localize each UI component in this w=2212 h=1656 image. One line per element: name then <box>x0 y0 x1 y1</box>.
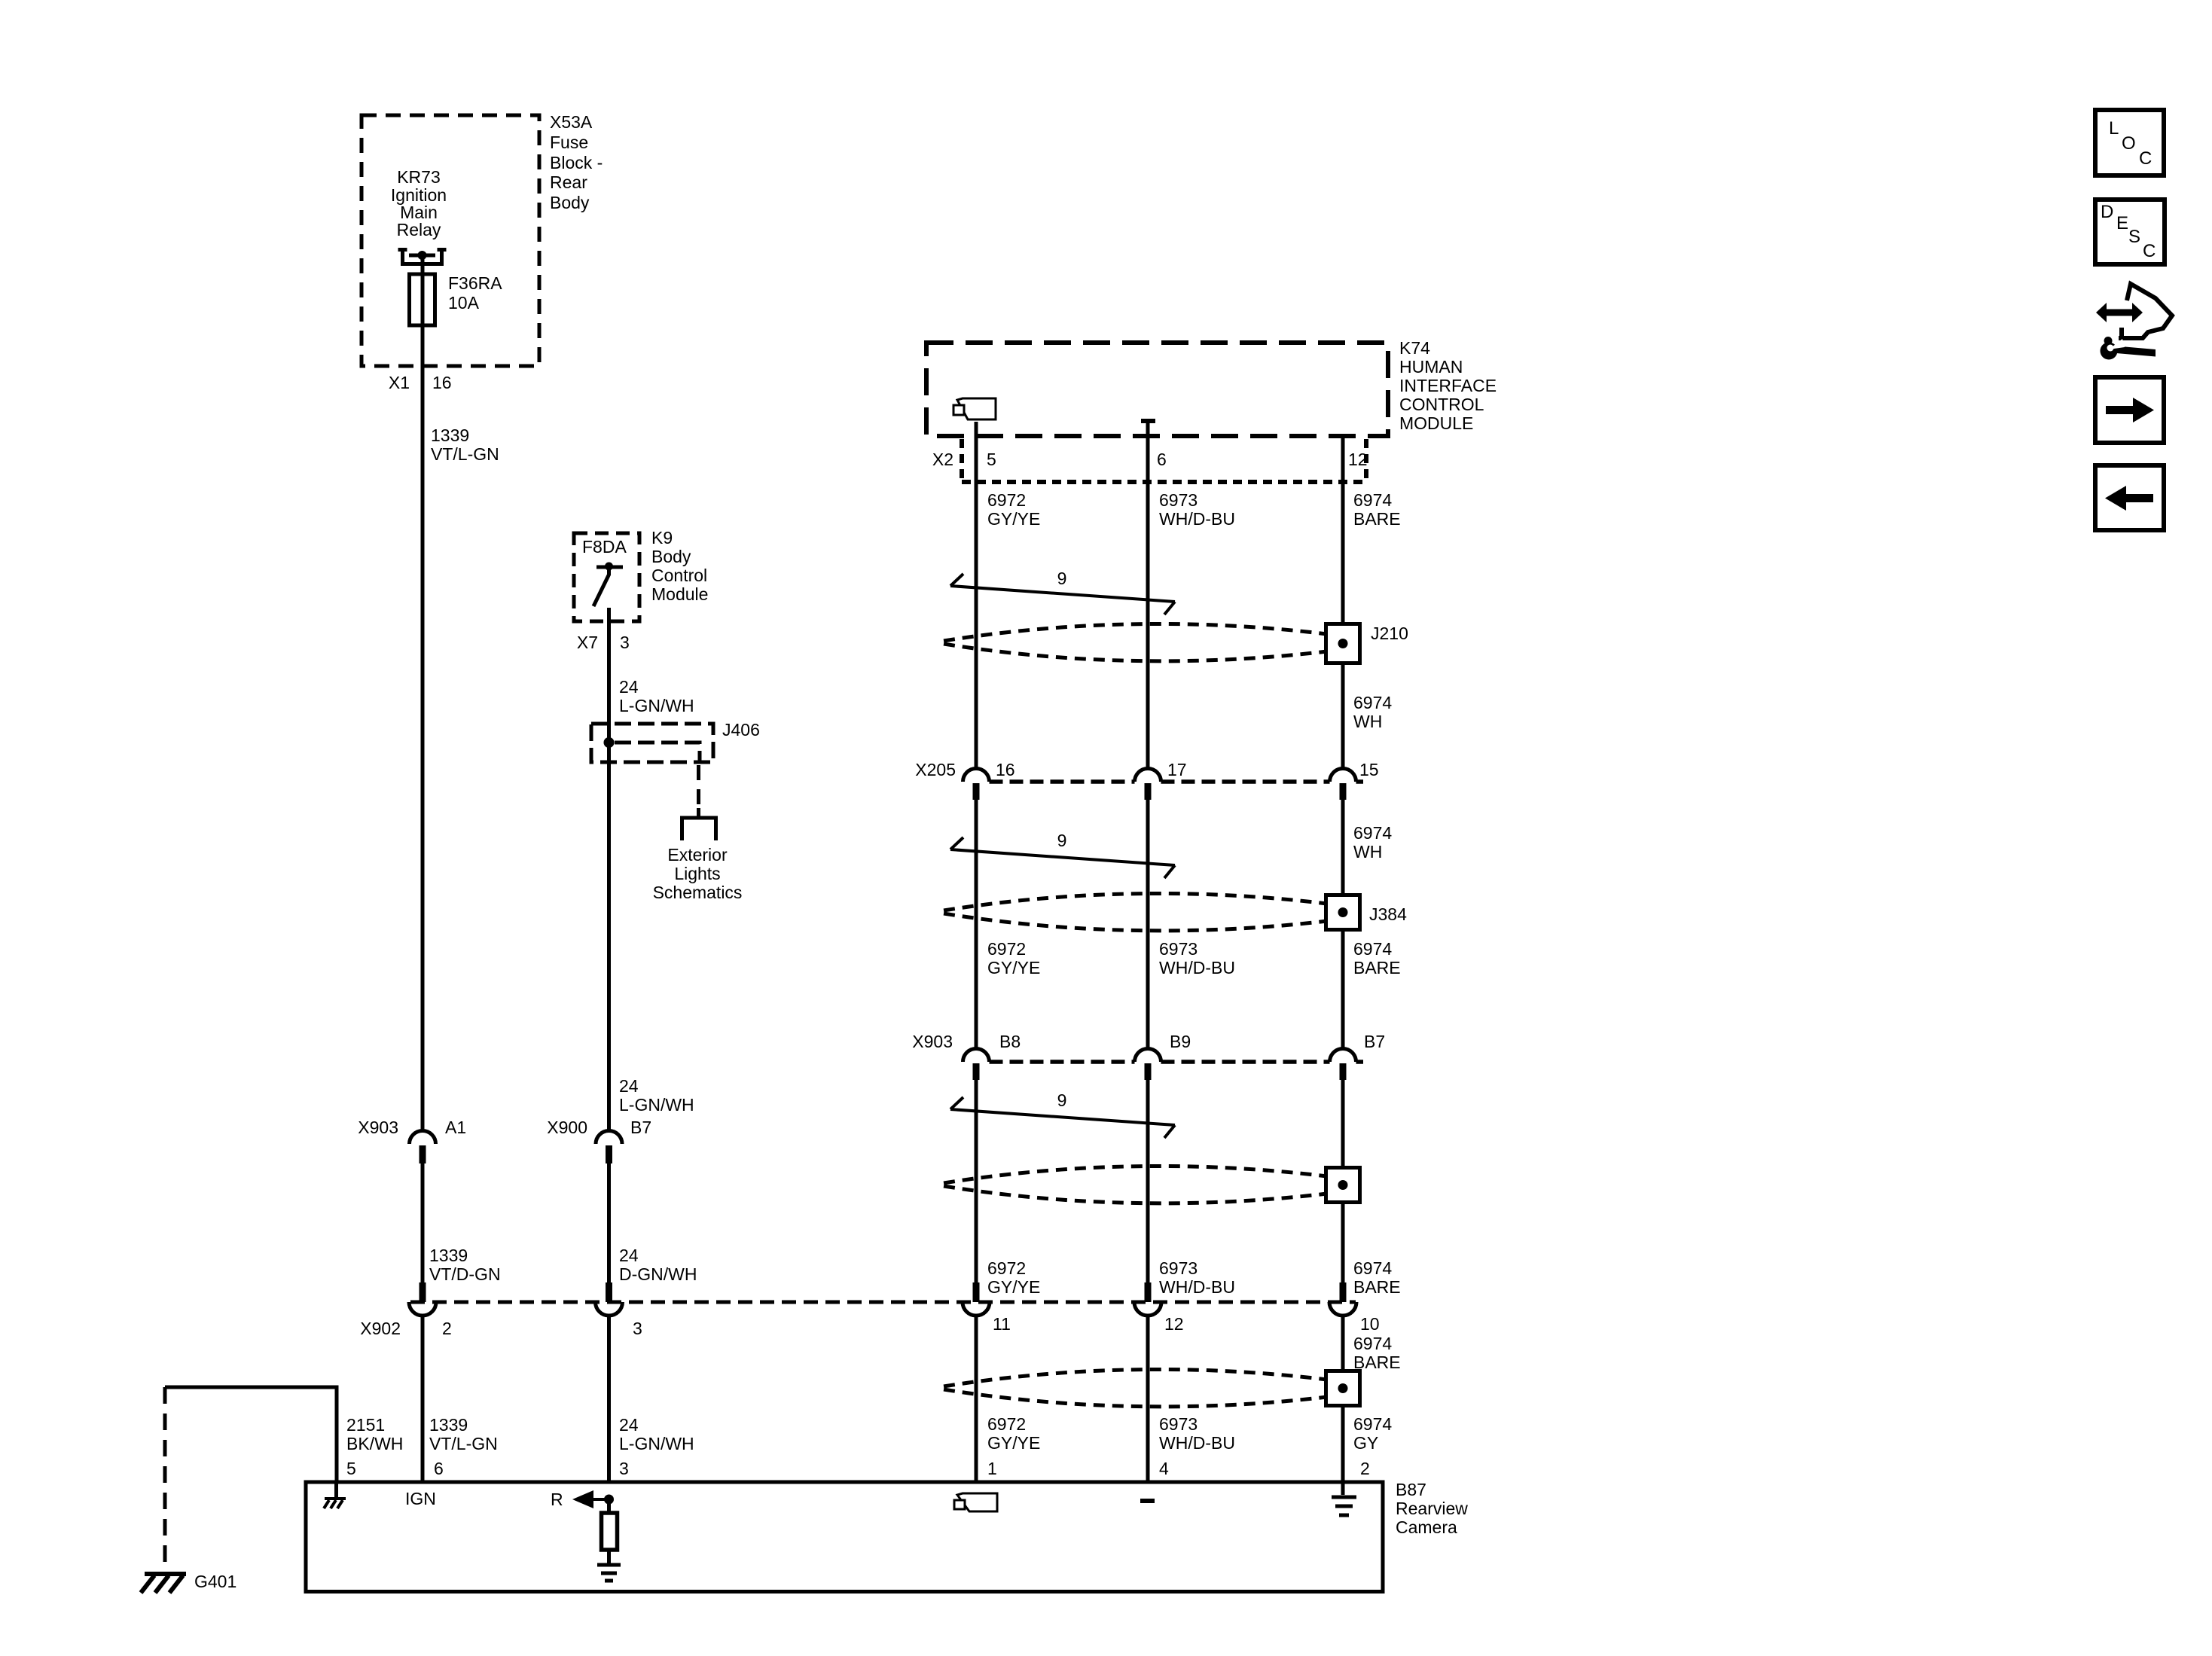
connector X902 pin 12 <box>1134 1282 1161 1316</box>
reverse signal arrow <box>572 1490 609 1508</box>
svg-text:2151: 2151 <box>346 1415 385 1435</box>
svg-text:6973: 6973 <box>1159 490 1198 510</box>
svg-text:X1: X1 <box>389 373 410 392</box>
svg-text:F8DA: F8DA <box>582 537 627 557</box>
svg-text:VT/L-GN: VT/L-GN <box>431 444 499 464</box>
wire label 6972 GY/YE (mid) <box>987 939 1040 977</box>
label 9 (pair 3) <box>1057 1090 1067 1110</box>
wire label 2151 BK/WH <box>346 1415 403 1453</box>
pin 16 label <box>996 760 1015 779</box>
svg-text:KR73: KR73 <box>397 167 441 187</box>
wire label 6972 GY/YE (bottom) <box>987 1414 1040 1453</box>
svg-text:BK/WH: BK/WH <box>346 1434 403 1453</box>
connector X902 pin 10 <box>1329 1282 1356 1316</box>
label X900 <box>547 1118 587 1137</box>
label IGN <box>405 1489 436 1508</box>
human interface control module K74 dashed box <box>926 343 1388 436</box>
wire label 6973 WH/D-BU (mid) <box>1159 939 1235 977</box>
svg-text:24: 24 <box>619 1076 639 1096</box>
connector row X903 dashed line <box>990 1060 1364 1064</box>
earth ground symbol (camera shield) <box>1332 1497 1356 1515</box>
ground G401 chassis symbol <box>141 1574 186 1593</box>
svg-text:WH: WH <box>1353 842 1382 862</box>
twisted pair symbol 2 <box>950 837 1175 878</box>
svg-text:F36RA: F36RA <box>448 273 502 293</box>
svg-text:D: D <box>2101 202 2113 222</box>
svg-text:WH/D-BU: WH/D-BU <box>1159 1277 1235 1297</box>
svg-text:VT/L-GN: VT/L-GN <box>429 1434 498 1453</box>
svg-text:Module: Module <box>651 584 708 604</box>
camera icon in B87 <box>954 1493 997 1511</box>
wire label 6974 BARE (mid) <box>1353 939 1401 977</box>
wire label 1339 VT/L-GN (bottom) <box>429 1415 498 1453</box>
wire C3 segment X205 to X903 <box>1341 800 1345 1049</box>
svg-text:Body: Body <box>550 193 590 212</box>
pin 12 label <box>1348 450 1368 469</box>
svg-text:3: 3 <box>633 1319 642 1338</box>
svg-text:WH/D-BU: WH/D-BU <box>1159 509 1235 529</box>
svg-text:Camera: Camera <box>1396 1517 1457 1537</box>
connector X2 dotted outline <box>962 439 1366 482</box>
earth ground symbol (resistor) <box>597 1565 621 1581</box>
pin B8 label <box>999 1032 1021 1051</box>
wire label 24 L-GN/WH <box>619 677 694 715</box>
svg-text:K9: K9 <box>651 528 673 547</box>
svg-text:1339: 1339 <box>431 425 469 445</box>
icon box arrow left <box>2095 465 2164 530</box>
shield ellipse 1 <box>944 624 1327 660</box>
svg-text:C: C <box>2139 148 2152 169</box>
wire B segment X902 to camera box <box>607 1316 611 1484</box>
svg-text:1: 1 <box>987 1459 997 1478</box>
icon box DESC <box>2095 200 2165 264</box>
pin 3 label (B87) <box>619 1459 629 1478</box>
pin 1 label (B87) <box>987 1459 997 1478</box>
wire label 6972 GY/YE (lower) <box>987 1258 1040 1297</box>
svg-text:Lights: Lights <box>674 864 720 883</box>
pin 2 label (B87) <box>1360 1459 1370 1478</box>
wire pin5 stub inside box <box>334 1481 338 1497</box>
connector X205 pin 16 <box>963 769 990 801</box>
icon schematic navigation (arrows and wrench) <box>2096 284 2172 360</box>
svg-text:C: C <box>2143 241 2156 261</box>
wire C2 segment K74 stub <box>1146 423 1150 436</box>
svg-text:B8: B8 <box>999 1032 1021 1051</box>
svg-text:1339: 1339 <box>429 1415 468 1435</box>
svg-text:IGN: IGN <box>405 1489 436 1508</box>
wire label 6974 WH (below X205) <box>1353 823 1392 862</box>
label X53A Fuse Block - Rear Body <box>550 112 603 212</box>
svg-text:Rear: Rear <box>550 172 587 192</box>
wire C1 segment X903 to X902 <box>975 1080 978 1282</box>
svg-text:16: 16 <box>432 373 452 392</box>
svg-text:X2: X2 <box>932 450 953 469</box>
svg-text:L-GN/WH: L-GN/WH <box>619 696 694 715</box>
svg-text:BARE: BARE <box>1353 958 1401 977</box>
wire label 24 L-GN/WH (above X900) <box>619 1076 694 1115</box>
label R <box>551 1490 563 1509</box>
connector X902 pin 11 <box>963 1282 990 1316</box>
wire C2 segment X2 to X205 <box>1146 436 1150 769</box>
svg-text:HUMAN: HUMAN <box>1399 357 1463 377</box>
svg-text:10: 10 <box>1360 1314 1380 1334</box>
splice J406 dashed boxes <box>591 724 713 762</box>
svg-text:B7: B7 <box>630 1118 651 1137</box>
svg-text:6973: 6973 <box>1159 1414 1198 1434</box>
svg-text:Exterior: Exterior <box>667 845 728 865</box>
wire label 6972 GY/YE (top) <box>987 490 1040 529</box>
svg-text:6972: 6972 <box>987 939 1026 959</box>
svg-text:Rearview: Rearview <box>1396 1499 1468 1518</box>
svg-text:24: 24 <box>619 1246 639 1265</box>
connector row X902 dashed line <box>410 1301 1356 1304</box>
svg-text:16: 16 <box>996 760 1015 779</box>
wire label 1339 VT/D-GN <box>429 1246 501 1284</box>
svg-text:J406: J406 <box>722 720 760 740</box>
svg-text:Control: Control <box>651 566 707 585</box>
svg-text:6974: 6974 <box>1353 1414 1392 1434</box>
wire resistor to ground <box>607 1550 611 1563</box>
svg-text:6: 6 <box>1157 450 1167 469</box>
splice J384 square <box>1326 895 1360 930</box>
label G401 <box>194 1572 236 1591</box>
connector X903 pin A1 <box>410 1131 436 1164</box>
label B87 Rearview Camera <box>1396 1480 1468 1537</box>
relay KR73 contact symbol <box>398 250 447 264</box>
wire label 6974 BARE (lower) <box>1353 1258 1401 1297</box>
svg-text:6973: 6973 <box>1159 1258 1198 1278</box>
wire label 6974 BARE (top) <box>1353 490 1401 529</box>
wire C1 segment X205 to X903 <box>975 800 978 1049</box>
svg-text:L-GN/WH: L-GN/WH <box>619 1095 694 1115</box>
pin 2 label <box>442 1319 452 1338</box>
label Exterior Lights Schematics <box>653 845 743 902</box>
svg-text:24: 24 <box>619 1415 639 1435</box>
label X903 (right) <box>912 1032 953 1051</box>
label F8DA <box>582 537 627 557</box>
minus symbol in K74 <box>1141 419 1155 423</box>
svg-text:6974: 6974 <box>1353 693 1392 712</box>
svg-text:2: 2 <box>442 1319 452 1338</box>
pin 12 label <box>1164 1314 1184 1334</box>
label X902 <box>360 1319 401 1338</box>
svg-text:B87: B87 <box>1396 1480 1426 1499</box>
pin 6 label (B87) <box>434 1459 444 1478</box>
svg-text:12: 12 <box>1348 450 1368 469</box>
svg-text:GY/YE: GY/YE <box>987 958 1040 977</box>
dashed wire to exterior lights <box>697 765 700 806</box>
wire C3 stub inside box <box>1341 1481 1345 1495</box>
ground branch wire (solid) <box>165 1387 337 1482</box>
pin A1 label <box>445 1118 466 1137</box>
wire A main vertical (relay to X903 A1) <box>421 255 425 1130</box>
wire label 6973 WH/D-BU (lower) <box>1159 1258 1235 1297</box>
off-page bracket exterior lights <box>682 808 716 840</box>
connector X205 pin 17 <box>1135 769 1161 801</box>
svg-text:X205: X205 <box>915 760 956 779</box>
label X903 (left) <box>358 1118 398 1137</box>
pin B7 label <box>1364 1032 1385 1051</box>
svg-text:X900: X900 <box>547 1118 587 1137</box>
svg-text:WH/D-BU: WH/D-BU <box>1159 958 1235 977</box>
svg-text:4: 4 <box>1159 1459 1169 1478</box>
svg-text:GY: GY <box>1353 1433 1378 1453</box>
svg-text:B7: B7 <box>1364 1032 1385 1051</box>
svg-text:INTERFACE: INTERFACE <box>1399 376 1497 395</box>
label F36RA 10A <box>448 273 502 313</box>
svg-text:BARE: BARE <box>1353 509 1401 529</box>
wire label 6973 WH/D-BU (bottom) <box>1159 1414 1235 1453</box>
svg-text:6974: 6974 <box>1353 1258 1392 1278</box>
connector X903 pin B9 <box>1135 1049 1161 1081</box>
pin 15 label <box>1359 760 1379 779</box>
svg-text:G401: G401 <box>194 1572 236 1591</box>
shield splice square 3 <box>1326 1168 1360 1203</box>
label J406 <box>722 720 760 740</box>
svg-text:6972: 6972 <box>987 1414 1026 1434</box>
svg-text:6972: 6972 <box>987 1258 1026 1278</box>
label X2 <box>932 450 953 469</box>
icon box LOC <box>2095 110 2164 175</box>
wire C1 segment X2 to X205 <box>975 436 978 769</box>
twisted pair symbol 3 <box>950 1097 1175 1138</box>
svg-text:X903: X903 <box>912 1032 953 1051</box>
pin 6 label <box>1157 450 1167 469</box>
connector X7 pin 3 labels <box>577 633 630 652</box>
label K9 Body Control Module <box>651 528 708 604</box>
svg-text:MODULE: MODULE <box>1399 413 1473 433</box>
shield ellipse 3 <box>944 1166 1327 1203</box>
svg-text:WH/D-BU: WH/D-BU <box>1159 1433 1235 1453</box>
twisted pair symbol 1 <box>950 574 1175 615</box>
svg-text:2: 2 <box>1360 1459 1370 1478</box>
label X205 <box>915 760 956 779</box>
svg-text:9: 9 <box>1057 569 1067 588</box>
svg-text:E: E <box>2116 213 2128 233</box>
fuse block X53A dashed box <box>362 115 539 366</box>
svg-text:BARE: BARE <box>1353 1277 1401 1297</box>
wire C3 segment X902 to camera box <box>1341 1316 1345 1484</box>
label 9 (pair 1) <box>1057 569 1067 588</box>
label 9 (pair 2) <box>1057 831 1067 850</box>
svg-text:3: 3 <box>620 633 630 652</box>
pin 5 label <box>987 450 996 469</box>
svg-text:6974: 6974 <box>1353 823 1392 843</box>
svg-text:X7: X7 <box>577 633 598 652</box>
connector X902 pin 3 <box>596 1282 623 1316</box>
svg-text:R: R <box>551 1490 563 1509</box>
shield ellipse 2 <box>944 893 1327 930</box>
pin 10 label <box>1360 1314 1380 1334</box>
svg-text:9: 9 <box>1057 1090 1067 1110</box>
svg-text:K74: K74 <box>1399 338 1430 358</box>
pin 3 label <box>633 1319 642 1338</box>
wire A segment X903 to X902 <box>421 1163 425 1282</box>
svg-text:11: 11 <box>993 1314 1011 1334</box>
svg-text:J384: J384 <box>1369 904 1407 924</box>
svg-text:CONTROL: CONTROL <box>1399 395 1484 414</box>
body control module K9 dashed box <box>574 533 639 621</box>
wire B main vertical (K9 to X900 B7) <box>607 608 611 1130</box>
connector row X205 dashed line <box>990 779 1364 784</box>
label J384 <box>1369 904 1407 924</box>
svg-text:5: 5 <box>346 1459 356 1478</box>
icon box arrow right <box>2095 377 2164 443</box>
minus symbol in B87 <box>1140 1499 1155 1503</box>
svg-text:WH: WH <box>1353 712 1382 731</box>
svg-text:5: 5 <box>987 450 996 469</box>
label K74 HUMAN INTERFACE CONTROL MODULE <box>1399 338 1497 433</box>
ground branch wire (dashed) <box>163 1387 167 1571</box>
svg-text:X903: X903 <box>358 1118 398 1137</box>
svg-text:GY/YE: GY/YE <box>987 509 1040 529</box>
pin B9 label <box>1170 1032 1191 1051</box>
pin 4 label (B87) <box>1159 1459 1169 1478</box>
pin 11 label <box>993 1314 1011 1334</box>
svg-text:L-GN/WH: L-GN/WH <box>619 1434 694 1453</box>
svg-text:15: 15 <box>1359 760 1379 779</box>
svg-text:B9: B9 <box>1170 1032 1191 1051</box>
wire label 24 D-GN/WH <box>619 1246 697 1284</box>
svg-text:S: S <box>2128 227 2140 247</box>
connector X903 pin B8 <box>963 1049 990 1081</box>
svg-text:Body: Body <box>651 547 691 566</box>
shield splice square 4 <box>1326 1371 1360 1406</box>
svg-text:6972: 6972 <box>987 490 1026 510</box>
wire C3 segment X903 to X902 <box>1341 1080 1345 1282</box>
junction dot (R node) <box>604 1495 614 1505</box>
camera icon in K74 <box>953 398 996 419</box>
pin B7 label (X900) <box>630 1118 651 1137</box>
connector X903 pin B7 <box>1330 1049 1356 1081</box>
svg-text:Schematics: Schematics <box>653 883 743 902</box>
wire label 24 L-GN/WH (bottom) <box>619 1415 694 1453</box>
shield ellipse 4 <box>944 1369 1327 1406</box>
svg-text:17: 17 <box>1167 760 1187 779</box>
connector X900 pin B7 <box>596 1131 622 1164</box>
svg-text:10A: 10A <box>448 293 480 313</box>
svg-text:X53A: X53A <box>550 112 593 132</box>
svg-text:GY/YE: GY/YE <box>987 1433 1040 1453</box>
svg-text:9: 9 <box>1057 831 1067 850</box>
svg-text:1339: 1339 <box>429 1246 468 1265</box>
svg-text:12: 12 <box>1164 1314 1184 1334</box>
fuse F36RA <box>410 274 435 325</box>
pin 17 label <box>1167 760 1187 779</box>
wire B segment X900 to X902 <box>607 1163 611 1282</box>
svg-text:D-GN/WH: D-GN/WH <box>619 1264 697 1284</box>
pin 5 label (B87) <box>346 1459 356 1478</box>
svg-text:GY/YE: GY/YE <box>987 1277 1040 1297</box>
splice J210 square <box>1326 624 1360 663</box>
wire C3 segment X2 to X205 <box>1341 436 1345 769</box>
resistor (camera internal) <box>602 1513 618 1550</box>
svg-text:24: 24 <box>619 677 639 697</box>
svg-text:O: O <box>2122 133 2136 154</box>
svg-text:6974: 6974 <box>1353 939 1392 959</box>
wire A segment X902 to camera box <box>421 1316 425 1484</box>
svg-text:3: 3 <box>619 1459 629 1478</box>
wire label 6974 GY (bottom) <box>1353 1414 1392 1453</box>
svg-text:Block -: Block - <box>550 153 603 172</box>
splice J406 dot <box>604 737 615 748</box>
svg-text:6974: 6974 <box>1353 490 1392 510</box>
switch F8DA symbol <box>593 563 623 607</box>
svg-text:Fuse: Fuse <box>550 133 588 152</box>
svg-text:6973: 6973 <box>1159 939 1198 959</box>
connector X205 pin 15 <box>1330 769 1356 801</box>
wire C2 segment X205 to X903 <box>1146 800 1150 1049</box>
connector X1 pin 16 labels <box>389 373 452 392</box>
wire label 1339 VT/L-GN <box>431 425 499 464</box>
svg-text:6: 6 <box>434 1459 444 1478</box>
svg-text:6974: 6974 <box>1353 1334 1392 1353</box>
rearview camera B87 box <box>306 1482 1383 1592</box>
wire label 6974 BARE (below pin 10) <box>1353 1334 1401 1372</box>
svg-text:L: L <box>2109 118 2119 139</box>
svg-text:J210: J210 <box>1371 624 1408 643</box>
wire C2 segment X903 to X902 <box>1146 1080 1150 1282</box>
label J210 <box>1371 624 1408 643</box>
svg-text:A1: A1 <box>445 1118 466 1137</box>
label KR73 Ignition Main Relay <box>391 167 447 239</box>
svg-text:VT/D-GN: VT/D-GN <box>429 1264 501 1284</box>
connector X902 pin 2 <box>409 1282 436 1316</box>
wire B stub to resistor <box>607 1499 611 1513</box>
wire label 6974 WH (above X205) <box>1353 693 1392 731</box>
wire label 6973 WH/D-BU (top) <box>1159 490 1235 529</box>
wire C1 segment K74 stub <box>975 422 978 436</box>
svg-text:Relay: Relay <box>397 220 441 239</box>
chassis ground symbol (pin 5) <box>324 1499 346 1508</box>
svg-text:X902: X902 <box>360 1319 401 1338</box>
wire C1 segment X902 to camera box <box>975 1316 978 1484</box>
wire C2 segment X902 to camera box <box>1146 1316 1150 1484</box>
